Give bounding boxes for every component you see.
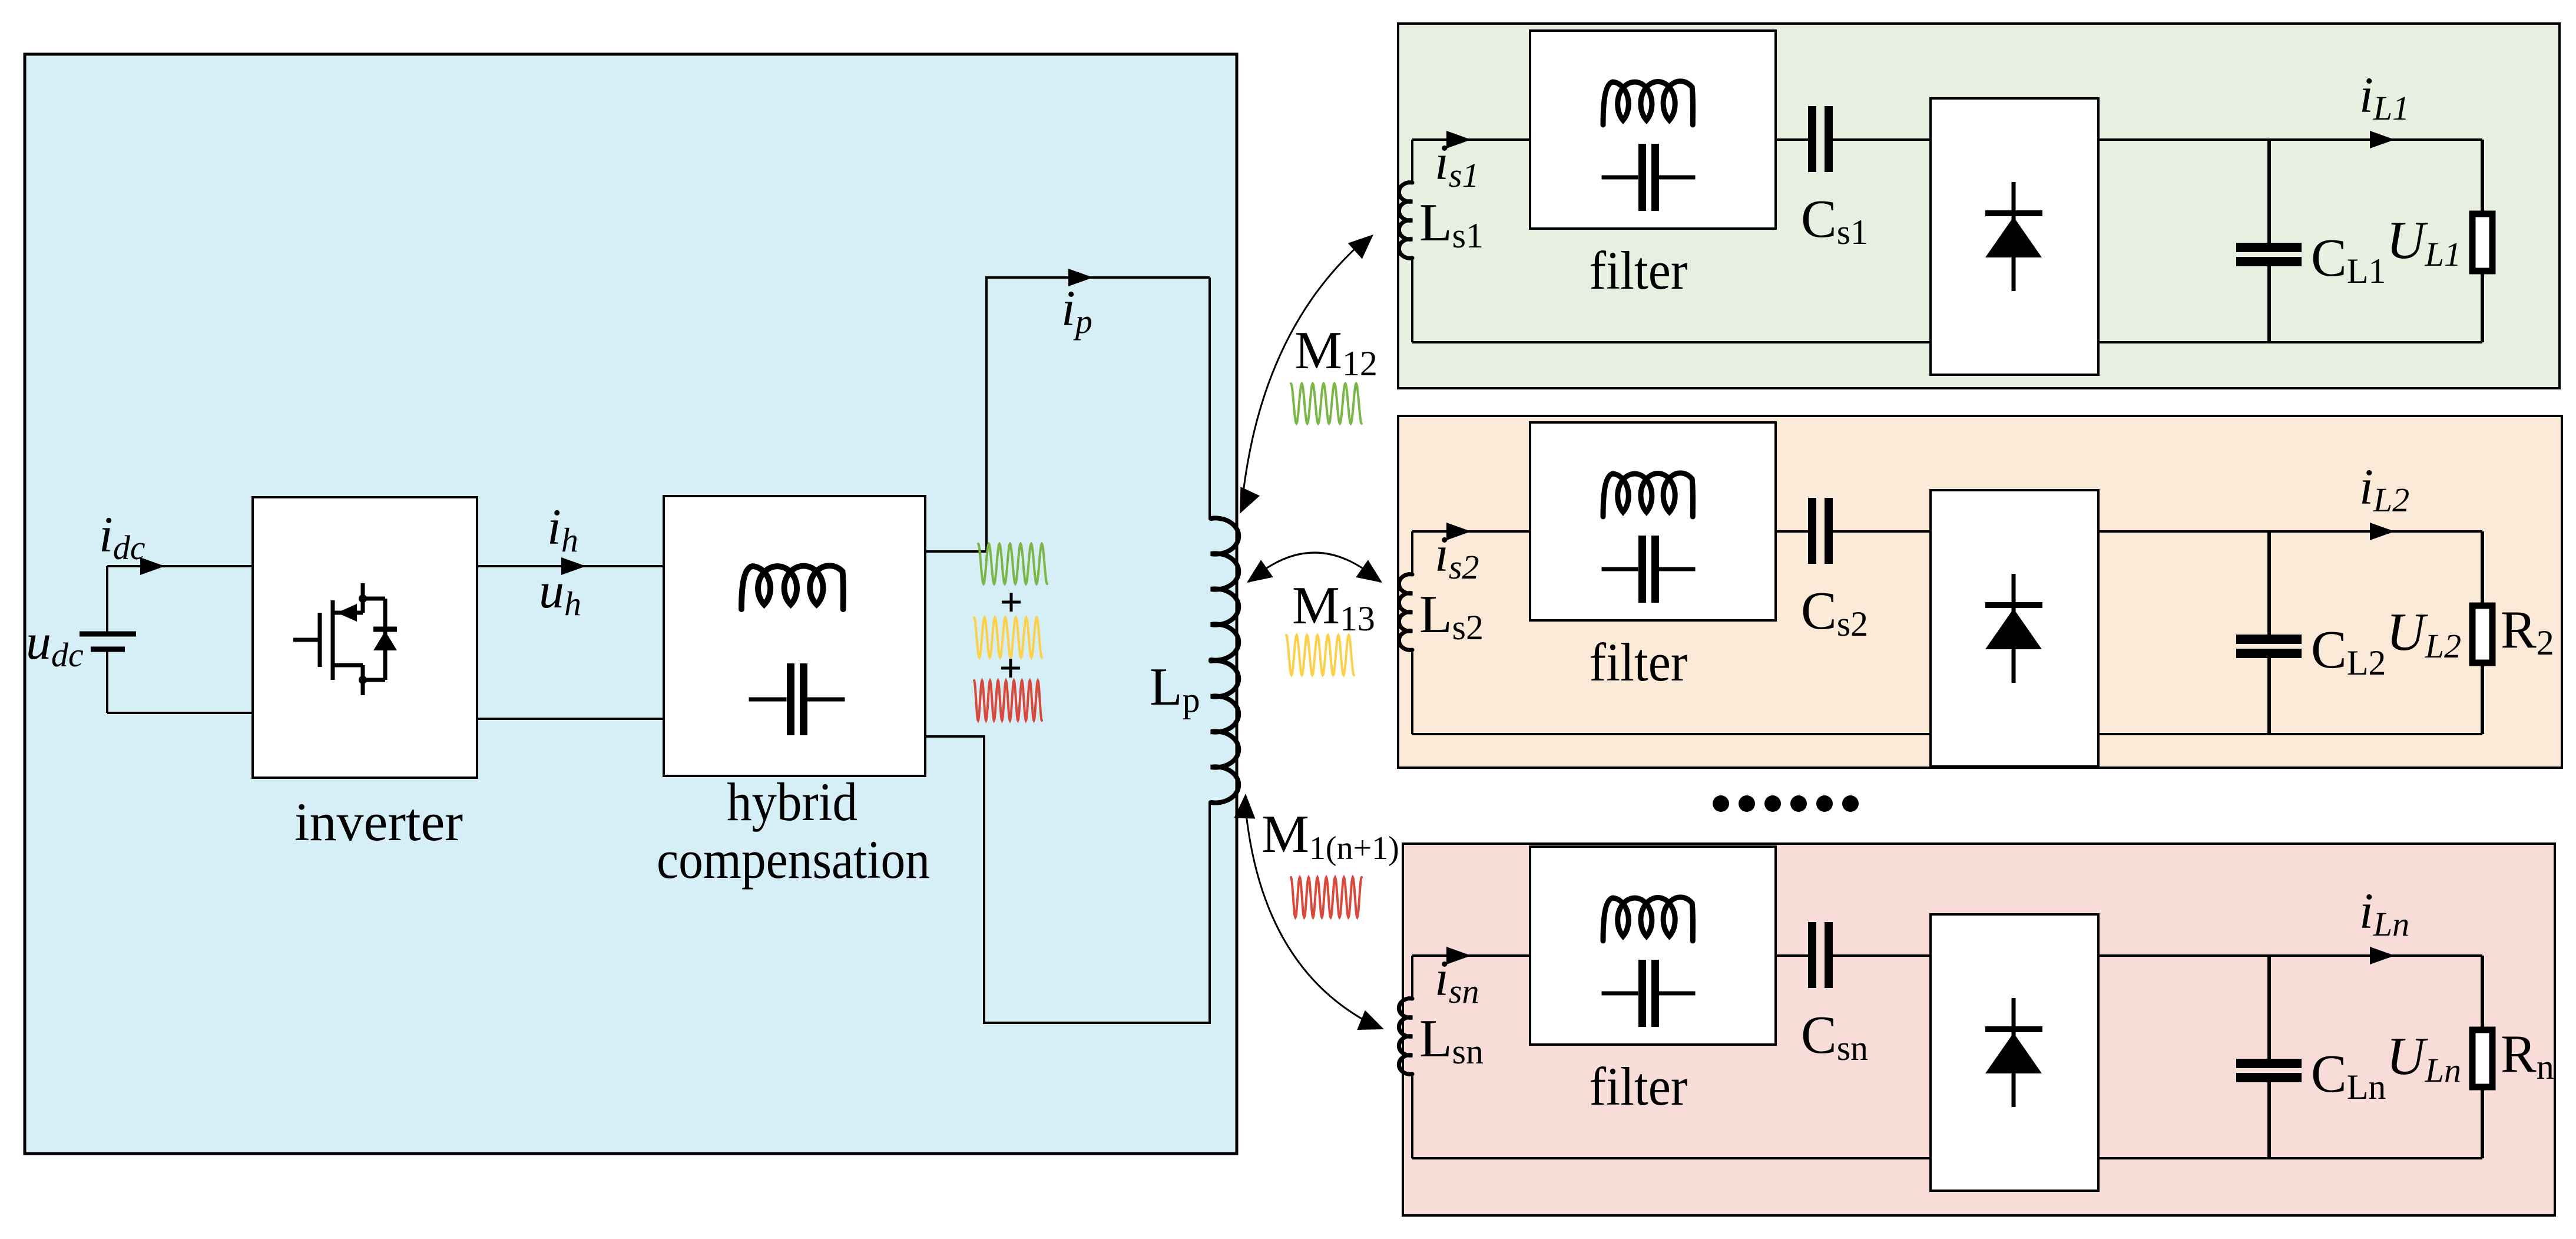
- primary side box: [25, 54, 1237, 1154]
- wire: [1776, 138, 1808, 141]
- arrow iL1: [2370, 131, 2395, 148]
- inductor icon: [741, 566, 843, 609]
- capacitor Cs1: [1808, 106, 1816, 172]
- coupling arrow M1(n+1): [1246, 814, 1373, 1025]
- arrow ip: [1068, 269, 1093, 286]
- wire: [107, 712, 253, 714]
- wire: [1833, 530, 1931, 533]
- svg-text:hybrid: hybrid: [727, 772, 857, 832]
- resistor R2: [2481, 531, 2484, 603]
- resistor R1: [2481, 140, 2484, 211]
- arrow ih: [561, 557, 586, 575]
- svg-text:M1(n+1): M1(n+1): [1261, 804, 1399, 867]
- capacitor CL2: [2267, 531, 2271, 635]
- svg-text:filter: filter: [1590, 632, 1688, 692]
- wire: [107, 565, 253, 567]
- filter box: [1530, 31, 1776, 229]
- svg-text:filter: filter: [1590, 1056, 1688, 1116]
- inverter box: [253, 497, 477, 778]
- diode: [2012, 574, 2016, 683]
- hybrid compensation box: [664, 496, 925, 776]
- wire: [1412, 733, 2482, 735]
- wire: [2098, 954, 2482, 957]
- wire: [477, 565, 664, 567]
- DC source udc: [106, 566, 108, 634]
- harmonic wave yellow: [974, 617, 1042, 658]
- diode: [2012, 998, 2016, 1107]
- dots ellipsis: [1713, 795, 1729, 812]
- svg-text:filter: filter: [1590, 240, 1688, 300]
- svg-text:inverter: inverter: [294, 792, 463, 852]
- wire: [925, 736, 1210, 1023]
- wire: [1833, 138, 1931, 141]
- wire: [477, 718, 664, 720]
- wire: [1412, 954, 1530, 957]
- inductor icon: [1603, 81, 1693, 125]
- inductor Ls: [1411, 531, 1413, 574]
- rectifier box: [1931, 914, 2098, 1191]
- capacitor CL1: [2267, 140, 2271, 243]
- inductor Ls: [1411, 140, 1413, 183]
- wire: [1412, 341, 2482, 343]
- inductor icon: [1603, 473, 1693, 517]
- svg-text:compensation: compensation: [657, 830, 930, 890]
- svg-text:M12: M12: [1294, 321, 1378, 383]
- plus: [1002, 593, 1021, 612]
- wire: [1208, 277, 1211, 520]
- arrow is: [1446, 523, 1471, 540]
- resistor Rn: [2481, 956, 2484, 1027]
- pickup side box 2: [1398, 416, 2562, 768]
- wire: [1412, 1157, 2482, 1159]
- filter box: [1530, 422, 1776, 620]
- coupling arrow M12: [1241, 237, 1368, 508]
- capacitor icon: [787, 663, 794, 735]
- plus: [1001, 659, 1020, 678]
- wire: [2098, 138, 2482, 141]
- arrow idc: [140, 557, 165, 575]
- coupling wave red M1(n+1): [1291, 877, 1362, 917]
- arrow is: [1446, 131, 1471, 148]
- pickup side box 1: [1398, 24, 2560, 388]
- wire: [1412, 530, 1530, 533]
- coupling wave green M12: [1291, 384, 1362, 424]
- capacitor CLn: [2267, 956, 2271, 1059]
- wire: [1833, 954, 1931, 957]
- rectifier box: [1931, 490, 2098, 766]
- wire: [925, 277, 1210, 551]
- inductor icon: [1603, 897, 1693, 941]
- harmonic wave red: [974, 680, 1042, 721]
- arrow iLn: [2370, 947, 2395, 964]
- wire: [1776, 530, 1808, 533]
- harmonic wave green: [978, 544, 1047, 584]
- wire: [1776, 954, 1808, 957]
- capacitor icon: [1638, 960, 1646, 1027]
- capacitor icon: [1638, 144, 1646, 211]
- arrow is: [1446, 947, 1471, 964]
- filter box: [1530, 847, 1776, 1045]
- coupling arrow M13: [1249, 553, 1380, 582]
- coupling wave yellow M13: [1286, 635, 1354, 675]
- arrow iL2: [2370, 523, 2395, 540]
- pickup side box n: [1403, 844, 2555, 1215]
- capacitor icon: [1638, 536, 1646, 603]
- wire: [1412, 138, 1530, 141]
- capacitor Cs2: [1808, 498, 1816, 564]
- inductor Ls: [1411, 956, 1413, 999]
- transistor Q1 (MOSFET with body diode): [293, 583, 385, 695]
- inductor Lp: [1211, 518, 1239, 660]
- capacitor Csn: [1808, 922, 1816, 988]
- diode: [2012, 182, 2016, 291]
- wire: [2098, 530, 2482, 533]
- rectifier box: [1931, 98, 2098, 375]
- svg-text:M13: M13: [1292, 576, 1375, 638]
